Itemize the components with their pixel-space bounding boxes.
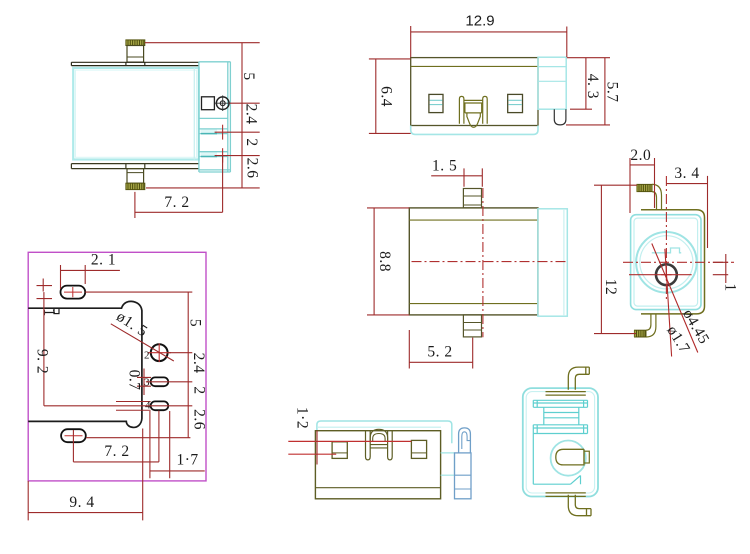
- dim 4.3 tick: [570, 108, 592, 110]
- top leg knurl: [637, 184, 652, 191]
- footprint extension lines right: [44, 292, 192, 438]
- dim 4.3 line: [585, 58, 587, 109]
- dim 7.2 line: [135, 211, 223, 213]
- body inner lines: [409, 220, 538, 304]
- barrel circle inner: [640, 236, 693, 289]
- dim 9.2 line: [43, 292, 45, 406]
- svg-text:1: 1: [41, 308, 58, 316]
- dim 5.2 extensions: [409, 330, 472, 369]
- dim 8.8 extensions: [367, 208, 409, 315]
- right pin square: [411, 440, 426, 458]
- dim chain line 2.6: [241, 156, 243, 188]
- horizontal dash-dot centerline: [412, 261, 568, 263]
- dim 5.2 line: [409, 361, 472, 363]
- svg-text:2: 2: [144, 350, 150, 362]
- hole horizontal centerline: [629, 274, 692, 276]
- body cyan outer: [631, 215, 701, 310]
- dim 12 line: [600, 185, 602, 333]
- dim 5.7 line: [604, 58, 606, 125]
- svg-text:2: 2: [243, 138, 260, 146]
- center contact right post: [483, 96, 488, 123]
- dim 6.4 line: [375, 59, 377, 133]
- svg-text:4. 3: 4. 3: [584, 74, 601, 99]
- key notch: [652, 248, 681, 253]
- svg-text:0.7: 0.7: [126, 370, 143, 391]
- dim chain line 2: [241, 132, 243, 155]
- vertical dash-dot centerline: [482, 188, 484, 337]
- svg-text:7. 2: 7. 2: [164, 194, 189, 211]
- top tab: [463, 189, 481, 208]
- top flange: [71, 62, 198, 65]
- body shell cyan: [73, 68, 199, 160]
- hole center cross: [661, 270, 671, 281]
- svg-text:12: 12: [602, 279, 619, 296]
- rear center pin: [554, 109, 566, 125]
- svg-text:1·7: 1·7: [177, 452, 199, 469]
- dim 5/2.4/2/2.6 extension lines: [145, 43, 260, 188]
- dim 5.7 tick: [566, 124, 610, 126]
- dim 1.2 leader lines: [288, 441, 411, 454]
- dim 7.2 line: [73, 461, 158, 463]
- step slot 1: [201, 130, 218, 134]
- center contact dome: [370, 429, 387, 442]
- top leg: [568, 367, 589, 390]
- center contact ladder: [464, 100, 483, 113]
- dim 9.4 line: [28, 512, 143, 514]
- dim 12 extensions: [594, 185, 637, 333]
- dim 9.4 extensions: [28, 429, 143, 521]
- dim 1 ticks: [37, 286, 53, 299]
- outline notch: [54, 308, 59, 313]
- center contact bars: [370, 445, 387, 448]
- body outline: [315, 431, 440, 499]
- lower cavity: [533, 434, 580, 485]
- center pin bullet: [556, 449, 584, 465]
- svg-text:2.4: 2.4: [243, 104, 260, 125]
- step slot 2: [201, 152, 218, 156]
- dim 8.8 line: [373, 208, 375, 315]
- shield pin rectangle: [202, 97, 215, 110]
- top flange lines: [546, 392, 586, 396]
- bottom pin body: [127, 169, 144, 184]
- board outline magenta: [28, 252, 206, 481]
- center contact bullet: [467, 113, 480, 127]
- bottom leg knurl: [635, 330, 647, 337]
- dim 7.2 extensions: [73, 411, 158, 462]
- center contact left post: [366, 431, 371, 460]
- leader dia 4.45: [652, 244, 698, 353]
- top leg bend: [637, 184, 662, 209]
- pad P2 circle: [151, 344, 168, 361]
- dim 1.5 line: [431, 175, 464, 177]
- hook inner: [462, 432, 471, 449]
- svg-text:ø1. 5: ø1. 5: [113, 308, 150, 341]
- svg-text:2.0: 2.0: [630, 147, 651, 164]
- dim 7.2 extensions: [135, 156, 223, 218]
- dim 0.7 arrows: [143, 369, 145, 396]
- VIEW7 section view: [523, 367, 598, 516]
- svg-text:6.4: 6.4: [378, 86, 395, 107]
- body cyan inner: [526, 392, 594, 493]
- svg-text:5. 2: 5. 2: [427, 344, 452, 361]
- center contact left post: [459, 96, 464, 123]
- VIEW2 top view: [369, 13, 621, 135]
- top pin body: [127, 46, 144, 63]
- bottom leg: [568, 495, 591, 516]
- svg-text:3. 4: 3. 4: [674, 165, 699, 182]
- shell outline olive: [641, 210, 705, 314]
- body outline: [411, 58, 538, 126]
- svg-text:9. 4: 9. 4: [69, 494, 94, 511]
- dim 2.1 line: [85, 269, 120, 271]
- dim chain 2: [187, 382, 189, 406]
- leader dia 1.7: [665, 249, 672, 357]
- hook outer: [459, 428, 471, 453]
- right connector cyan: [441, 453, 455, 475]
- VIEW3 right end view: [594, 147, 739, 357]
- rear cyan extension: [538, 57, 566, 109]
- VIEW6 bottom view: [288, 407, 471, 499]
- pad P1 oval: [61, 286, 86, 299]
- VIEW5 footprint: [28, 252, 207, 521]
- right pad square: [508, 94, 523, 112]
- body bottom inner line: [315, 487, 440, 489]
- rear cyan extension: [538, 209, 567, 316]
- left pin square: [332, 442, 347, 459]
- horizontal dash-dot centerline: [623, 261, 734, 263]
- svg-text:12.9: 12.9: [465, 13, 494, 30]
- dim 1 arrows: [42, 279, 44, 292]
- front lip cyan: [411, 126, 538, 135]
- dim 2.0 line: [630, 164, 655, 166]
- body outline: [409, 208, 538, 315]
- center contact right post: [388, 431, 393, 460]
- svg-text:8.8: 8.8: [376, 251, 393, 272]
- dim chain 5: [187, 292, 189, 353]
- rivet circle: [216, 97, 229, 110]
- svg-text:2.6: 2.6: [244, 158, 261, 179]
- dim 3.4 line: [666, 183, 707, 185]
- dim chain line 2.4: [241, 103, 243, 132]
- dim chain line 5: [241, 43, 243, 103]
- dim 1.2 arrows: [316, 431, 318, 465]
- left pad square: [429, 94, 443, 112]
- bottom pin knurl: [126, 183, 145, 189]
- dim 1.7 line: [150, 470, 170, 472]
- svg-text:1: 1: [722, 283, 739, 291]
- mid stack: [544, 407, 579, 425]
- dim 3.4 extension: [707, 176, 709, 248]
- dim 2.1 extensions: [61, 265, 86, 289]
- top pin knurl: [126, 40, 145, 46]
- pad P5 oval: [61, 429, 86, 442]
- rear cyan band: [317, 421, 452, 443]
- right tall bracket: [455, 453, 472, 499]
- leader dia 1.5: [111, 324, 174, 361]
- dim 1.7 extensions: [150, 411, 205, 478]
- svg-text:2: 2: [191, 386, 208, 394]
- barrel circle outer: [636, 232, 697, 293]
- svg-text:2.6: 2.6: [191, 409, 208, 430]
- pad P4 oval: [151, 401, 169, 410]
- second plate: [533, 425, 587, 434]
- body inner top line: [411, 65, 538, 67]
- VIEW1 side view top-left: [71, 40, 260, 218]
- dim 2.0 extensions: [630, 158, 655, 213]
- bottom flange lines: [546, 493, 586, 497]
- svg-text:5.7: 5.7: [604, 82, 621, 103]
- right barrel section cyan: [193, 68, 195, 160]
- VIEW4 middle view: [367, 158, 567, 369]
- barrel circle: [551, 441, 586, 476]
- dim 6.4 extensions: [369, 59, 411, 133]
- dim chain 2.4: [187, 353, 189, 382]
- dim chain 2.6: [187, 406, 189, 438]
- svg-text:5: 5: [240, 72, 257, 80]
- dim 1.5 ticks: [464, 168, 482, 186]
- dim 0.7 ticks: [137, 377, 151, 386]
- center pin hole: [656, 264, 677, 285]
- dim 1 arrow segments: [725, 254, 727, 283]
- pad P4 edge extension lines: [116, 402, 151, 411]
- dim 1 ticks: [713, 262, 728, 274]
- body cyan outer: [523, 388, 598, 496]
- bottom leg bend: [635, 314, 656, 337]
- dim 12.9 line: [411, 31, 567, 33]
- svg-text:9. 2: 9. 2: [34, 349, 51, 374]
- bottom flange: [71, 164, 198, 169]
- bottom tab: [463, 315, 481, 337]
- center pin tab: [584, 451, 589, 463]
- red tick step2: [222, 148, 224, 162]
- svg-text:2. 1: 2. 1: [91, 252, 116, 269]
- svg-text:2.4: 2.4: [190, 353, 207, 374]
- top plate: [533, 400, 587, 407]
- red tick step1: [222, 125, 224, 140]
- part outline top: [28, 301, 142, 427]
- vertical dash-dot centerline: [665, 176, 667, 302]
- svg-text:7. 2: 7. 2: [104, 443, 129, 460]
- svg-text:5: 5: [187, 319, 204, 327]
- pad P3 oval: [151, 377, 169, 386]
- svg-text:1. 5: 1. 5: [432, 158, 457, 175]
- body cyan inner: [634, 218, 698, 306]
- dim 12.9 extensions: [411, 26, 610, 58]
- svg-text:1·2: 1·2: [294, 407, 311, 429]
